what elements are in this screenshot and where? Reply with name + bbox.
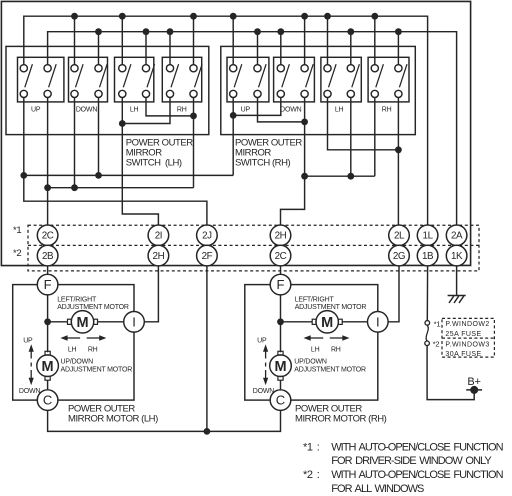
wire jog LH.LH1 to LH.RH1 bbox=[122, 98, 170, 124]
connector pin 2H (row 2) bbox=[148, 245, 169, 266]
wire LH.RH2 down to line2 end bbox=[193, 98, 195, 188]
motor M up/down adjust (RH) bbox=[270, 351, 292, 380]
connector row *2 dashed box (shared middle line) bbox=[28, 244, 479, 246]
wire bus1 drop at x=233.2 bbox=[232, 16, 234, 64]
svg-text:LH: LH bbox=[130, 106, 139, 113]
svg-text:M: M bbox=[274, 359, 286, 375]
switch UP (LH) bbox=[18, 57, 64, 113]
svg-text:F: F bbox=[44, 277, 52, 292]
svg-text:1B: 1B bbox=[422, 251, 434, 262]
svg-text:P.WINDOW3: P.WINDOW3 bbox=[445, 341, 489, 348]
svg-text:UP: UP bbox=[241, 106, 251, 113]
wire 2F down to common bbox=[206, 266, 208, 432]
svg-text:RH: RH bbox=[177, 106, 187, 113]
svg-text:DOWN: DOWN bbox=[76, 106, 98, 113]
wire bus2 drop at x=146.0 bbox=[145, 32, 147, 65]
node F junction (LH) bbox=[44, 318, 51, 325]
switch RH (LH) bbox=[162, 57, 202, 113]
svg-text::: : bbox=[317, 441, 320, 453]
arrow UP/DOWN (RH motor) bbox=[263, 344, 268, 385]
svg-text:WITH AUTO-OPEN/CLOSE FUNCTION: WITH AUTO-OPEN/CLOSE FUNCTION bbox=[331, 441, 503, 453]
node RH.DN2 jog bbox=[301, 119, 308, 126]
node LH.DN1-line2 bbox=[71, 184, 78, 191]
wire 2C to F (RH) bbox=[280, 266, 282, 274]
junction on bus2 at x=257.5 bbox=[254, 28, 261, 35]
svg-text:RH: RH bbox=[331, 346, 341, 353]
motor M up/down adjust (LH) bbox=[37, 351, 59, 380]
node RH.RH2 jog bbox=[395, 146, 402, 153]
svg-text:2B: 2B bbox=[42, 251, 54, 262]
wire bus1 drop at x=304.6 bbox=[304, 16, 306, 64]
node RH.LH2-lineR1 bbox=[347, 173, 354, 180]
label LH arrow (RH motor) bbox=[311, 346, 320, 353]
junction on bus1 at x=327.5 bbox=[324, 13, 331, 20]
wire right brush to I bbox=[342, 321, 378, 323]
wire M2 to C bbox=[280, 380, 282, 390]
wire jog RH.UP1 to RH.DN1 bbox=[233, 98, 281, 116]
note *2 bbox=[303, 469, 504, 495]
motor box outline (LH) bbox=[13, 285, 134, 401]
connector pin 2J (row 1) bbox=[197, 225, 218, 246]
junction on bus2 at x=350.8 bbox=[347, 28, 354, 35]
svg-text:25A FUSE: 25A FUSE bbox=[445, 331, 481, 338]
wire RH.DN2 down, jog to connector 2H bbox=[281, 98, 305, 226]
junction on bus2 at x=280.8 bbox=[277, 28, 284, 35]
node 2F-common junction bbox=[204, 428, 211, 435]
connector pin 2A (row 1) bbox=[446, 225, 467, 246]
label *1 fuse bbox=[434, 320, 441, 329]
wire bus1 drop at x=74.5 bbox=[74, 16, 76, 64]
wire junction down to M2 bbox=[280, 322, 282, 353]
label *1 (row 1) bbox=[13, 225, 21, 236]
svg-text:2H: 2H bbox=[153, 251, 165, 262]
svg-text:C: C bbox=[43, 393, 52, 408]
wire LH.DN1 down to line2 bbox=[74, 98, 76, 188]
svg-text:FOR DRIVER-SIDE WINDOW ONLY: FOR DRIVER-SIDE WINDOW ONLY bbox=[331, 455, 492, 467]
wire RH.LH2 down to lineR1 bbox=[350, 98, 352, 177]
node LH.RH2 jog bbox=[190, 113, 197, 120]
label UP (RH motor) bbox=[257, 337, 267, 344]
svg-text:*2: *2 bbox=[433, 340, 440, 349]
svg-text:LEFT/RIGHT: LEFT/RIGHT bbox=[57, 297, 97, 304]
svg-text:*2: *2 bbox=[303, 469, 313, 481]
arrow LH direction (LH motor) bbox=[60, 335, 80, 340]
junction on bus2 at x=98.5 bbox=[95, 28, 102, 35]
svg-text:I: I bbox=[376, 314, 380, 329]
connector pin 1K (row 2) bbox=[446, 245, 467, 266]
wire F to junction bbox=[280, 295, 282, 322]
svg-text:LH: LH bbox=[335, 106, 344, 113]
svg-text:1L: 1L bbox=[423, 231, 434, 242]
svg-text:1K: 1K bbox=[451, 251, 463, 262]
node LH.UP2-line2 bbox=[44, 184, 51, 191]
wire bus1 drop at x=193.5 bbox=[193, 16, 195, 64]
svg-text:2A: 2A bbox=[451, 231, 463, 242]
svg-text:2C: 2C bbox=[275, 251, 287, 262]
connector row *1 dashed box bbox=[28, 225, 479, 271]
wire 1B down to fuse bbox=[426, 266, 428, 321]
label RH arrow (RH motor) bbox=[331, 346, 341, 353]
svg-text:UP: UP bbox=[257, 337, 267, 344]
connector pin 2H (row 1) bbox=[270, 225, 291, 246]
svg-text:M: M bbox=[321, 315, 333, 331]
wire jog RH.LH1 to RH.RH2 bbox=[328, 98, 399, 150]
switch UP (RH) bbox=[227, 57, 269, 113]
connector pin 2I (row 1) bbox=[148, 225, 169, 246]
wire bus2 drop at x=170.0 bbox=[169, 32, 171, 65]
svg-text:ADJUSTMENT MOTOR: ADJUSTMENT MOTOR bbox=[295, 304, 367, 311]
svg-text:2J: 2J bbox=[202, 231, 212, 242]
node RH.DN2-lineR1 bbox=[301, 173, 308, 180]
connector pin 2C (row 2) bbox=[270, 245, 291, 266]
fuse label box P.WINDOW3 30A FUSE (shared middle line) bbox=[442, 338, 494, 358]
wire bus2 drop at x=257.5 bbox=[257, 32, 259, 65]
wire lineR1 RH.DN2 to RH.RH1 bbox=[305, 175, 375, 177]
label *2 (row 2) bbox=[13, 248, 21, 259]
motor M left/right adjust (RH) bbox=[312, 311, 342, 333]
label POWER OUTER MIRROR MOTOR (LH) bbox=[68, 404, 158, 425]
terminal C (RH) bbox=[270, 390, 291, 411]
svg-text:UP/DOWN: UP/DOWN bbox=[61, 359, 94, 366]
svg-text:DOWN: DOWN bbox=[253, 388, 275, 395]
wire bus1 drop at x=374.8 bbox=[374, 16, 376, 64]
wire I (RH) to 2G bbox=[388, 266, 399, 322]
svg-text:2F: 2F bbox=[202, 251, 213, 262]
svg-text:LH: LH bbox=[68, 346, 77, 353]
motor box outline (RH) bbox=[245, 285, 378, 401]
svg-text:2L: 2L bbox=[394, 231, 405, 242]
svg-text:F: F bbox=[277, 277, 285, 292]
connector pin 2F (row 2) bbox=[197, 245, 218, 266]
wire bus1 drop at x=122.3 bbox=[121, 16, 123, 64]
svg-text:I: I bbox=[132, 314, 136, 329]
ground loop wire (outer frame) bbox=[1, 1, 470, 265]
svg-text:RH: RH bbox=[382, 106, 392, 113]
svg-text:B+: B+ bbox=[467, 376, 480, 388]
svg-text:2H: 2H bbox=[275, 231, 287, 242]
svg-text:UP/DOWN: UP/DOWN bbox=[294, 359, 327, 366]
svg-text:*2: *2 bbox=[13, 248, 21, 259]
wire bus2 drop at x=280.8 bbox=[280, 32, 282, 65]
junction on bus1 at x=193.5 bbox=[190, 13, 197, 20]
wire LH.UP1 to line1/line3 then 2J bbox=[24, 98, 207, 226]
wire bus2 drop at x=350.8 bbox=[350, 32, 352, 65]
wire LH.DN2 down to line1 bbox=[98, 98, 100, 176]
junction on bus2 at x=146.0 bbox=[143, 28, 150, 35]
label *2 fuse bbox=[433, 340, 440, 349]
label UP (LH motor) bbox=[23, 337, 33, 344]
wire fuse to B+ bbox=[427, 346, 474, 400]
motor M left/right adjust (LH) bbox=[68, 311, 98, 333]
svg-text:P.WINDOW2: P.WINDOW2 bbox=[445, 321, 489, 328]
B+ terminal bbox=[466, 376, 482, 394]
label POWER OUTER MIRROR SWITCH (RH) bbox=[235, 138, 302, 169]
node LH.LH1 jog bbox=[119, 120, 126, 127]
ground symbol bbox=[448, 296, 466, 304]
label LEFT/RIGHT ADJUSTMENT MOTOR (RH motor) bbox=[295, 297, 367, 312]
svg-text:FOR ALL WINDOWS: FOR ALL WINDOWS bbox=[331, 483, 424, 495]
svg-text:DOWN: DOWN bbox=[280, 106, 302, 113]
svg-text:SWITCH (RH): SWITCH (RH) bbox=[235, 157, 290, 168]
switch LH (LH) bbox=[115, 57, 155, 113]
svg-text:WITH AUTO-OPEN/CLOSE FUNCTION: WITH AUTO-OPEN/CLOSE FUNCTION bbox=[331, 469, 503, 481]
fuse F1 (P.WINDOW) bbox=[425, 321, 430, 346]
wire common: C (LH) - 2F - C (RH) bbox=[48, 410, 281, 431]
note *1 bbox=[303, 441, 504, 467]
arrow LH direction (RH motor) bbox=[304, 335, 324, 340]
fuse label box P.WINDOW2 25A FUSE bbox=[442, 318, 494, 357]
switch box LH outline bbox=[6, 46, 209, 134]
terminal I (RH) bbox=[368, 312, 389, 333]
connector pin 1B (row 2) bbox=[417, 245, 438, 266]
svg-text:DOWN: DOWN bbox=[19, 388, 41, 395]
switch DOWN (RH) bbox=[274, 57, 315, 113]
bus wire from connector 1L (upper supply bus) bbox=[24, 16, 428, 225]
svg-text:MIRROR MOTOR (LH): MIRROR MOTOR (LH) bbox=[68, 414, 158, 425]
svg-text:LEFT/RIGHT: LEFT/RIGHT bbox=[295, 297, 335, 304]
label LEFT/RIGHT ADJUSTMENT MOTOR (LH motor) bbox=[57, 297, 129, 312]
connector pin 2B (row 2) bbox=[37, 245, 58, 266]
label DOWN (LH motor) bbox=[19, 388, 41, 395]
node LH.DN2-line1 bbox=[95, 172, 102, 179]
junction on bus1 at x=122.3 bbox=[119, 13, 126, 20]
terminal C (LH) bbox=[37, 390, 58, 411]
svg-text::: : bbox=[317, 469, 320, 481]
wire line2 LH.UP2 to LH.RH2 bbox=[48, 187, 194, 189]
wire jog LH.LH2 to LH.RH2 bbox=[146, 98, 194, 116]
svg-text:*1: *1 bbox=[434, 320, 441, 329]
svg-text:RH: RH bbox=[88, 346, 98, 353]
junction on bus1 at x=374.8 bbox=[371, 13, 378, 20]
label UP/DOWN ADJUSTMENT MOTOR (RH motor) bbox=[294, 359, 366, 374]
svg-text:M: M bbox=[76, 315, 88, 331]
wire 1K to ground bbox=[456, 266, 458, 296]
connector pin 2G (row 2) bbox=[389, 245, 410, 266]
svg-text:C: C bbox=[276, 393, 285, 408]
wire F to junction bbox=[47, 295, 49, 322]
junction on bus2 at x=170.0 bbox=[167, 28, 174, 35]
label POWER OUTER MIRROR SWITCH (LH) bbox=[126, 138, 193, 169]
svg-text:UP: UP bbox=[31, 106, 41, 113]
wire RH.RH1 down to lineR1 bbox=[374, 98, 376, 177]
wire junction down to M2 bbox=[47, 322, 49, 353]
connector pin 1L (row 1) bbox=[417, 225, 438, 246]
svg-text:2C: 2C bbox=[42, 231, 54, 242]
wire right brush to I bbox=[97, 321, 134, 323]
label LH arrow (LH motor) bbox=[68, 346, 77, 353]
label DOWN (RH motor) bbox=[253, 388, 275, 395]
svg-text:30A FUSE: 30A FUSE bbox=[445, 351, 481, 358]
wire LH.LH1 down, jog to connector 2I bbox=[122, 98, 158, 226]
svg-text:SWITCH (LH): SWITCH (LH) bbox=[126, 157, 182, 168]
label RH arrow (LH motor) bbox=[88, 346, 98, 353]
arrow RH direction (LH motor) bbox=[87, 335, 107, 340]
terminal F (RH) bbox=[270, 274, 291, 295]
node RH.UP1 jog bbox=[230, 112, 237, 119]
wire LH.UP2 down to connector 2C bbox=[47, 98, 49, 226]
terminal F (LH) bbox=[37, 274, 58, 295]
arrow RH direction (RH motor) bbox=[330, 335, 350, 340]
junction on bus1 at x=74.5 bbox=[71, 13, 78, 20]
junction on bus2 at x=398.4 bbox=[395, 28, 402, 35]
wire I (LH) to 2H bbox=[144, 266, 158, 322]
switch LH (RH) bbox=[321, 57, 361, 113]
switch RH (RH) bbox=[368, 57, 409, 113]
connector pin 2L (row 1) bbox=[389, 225, 410, 246]
label UP/DOWN ADJUSTMENT MOTOR (LH motor) bbox=[61, 359, 133, 374]
svg-text:MIRROR MOTOR (RH): MIRROR MOTOR (RH) bbox=[295, 414, 387, 425]
wire RH.UP1 down to line1 corner bbox=[232, 98, 234, 176]
svg-text:*1: *1 bbox=[13, 225, 21, 236]
switch box RH outline bbox=[221, 46, 415, 134]
wire 2B to F (LH) bbox=[47, 266, 49, 274]
bus wire from connector 2A (lower supply bus) bbox=[48, 32, 457, 225]
svg-text:ADJUSTMENT MOTOR: ADJUSTMENT MOTOR bbox=[294, 366, 366, 373]
svg-text:2I: 2I bbox=[155, 231, 162, 242]
label POWER OUTER MIRROR MOTOR (RH) bbox=[295, 404, 387, 425]
svg-text:2G: 2G bbox=[393, 251, 405, 262]
wire junction to left brush bbox=[281, 321, 313, 323]
wire junction to left brush bbox=[48, 321, 68, 323]
svg-text:ADJUSTMENT MOTOR: ADJUSTMENT MOTOR bbox=[61, 366, 133, 373]
wire bus1 drop at x=327.5 bbox=[327, 16, 329, 64]
wire M2 to C bbox=[47, 380, 49, 390]
wire bus2 drop at x=398.4 bbox=[397, 32, 399, 65]
svg-text:UP: UP bbox=[23, 337, 33, 344]
switch DOWN (LH) bbox=[69, 57, 108, 113]
node LH.UP1-line1 bbox=[20, 172, 27, 179]
junction on bus1 at x=233.2 bbox=[230, 13, 237, 20]
svg-text:M: M bbox=[42, 359, 54, 375]
terminal I (LH) bbox=[124, 312, 145, 333]
svg-text:LH: LH bbox=[311, 346, 320, 353]
junction on bus1 at x=304.6 bbox=[301, 13, 308, 20]
svg-text:ADJUSTMENT MOTOR: ADJUSTMENT MOTOR bbox=[57, 304, 129, 311]
wire line1 LH.UP1 to RH.UP1 bbox=[24, 174, 233, 176]
wire jog RH.UP2 to RH.DN2 bbox=[258, 98, 305, 122]
wire RH.RH2 down to connector 2L bbox=[397, 98, 399, 226]
connector pin 2C (row 1) bbox=[37, 225, 58, 246]
arrow UP/DOWN (LH motor) bbox=[29, 344, 34, 385]
node F junction (RH) bbox=[277, 318, 284, 325]
svg-text:*1: *1 bbox=[303, 441, 313, 453]
wire bus2 drop at x=98.5 bbox=[98, 32, 100, 65]
